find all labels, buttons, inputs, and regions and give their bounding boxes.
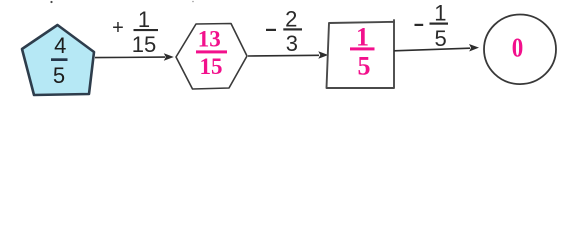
arrow 3 head <box>469 44 479 52</box>
fraction 1/5 bar <box>350 47 375 50</box>
svg-text:0: 0 <box>512 32 524 62</box>
svg-text:2: 2 <box>285 7 297 32</box>
speck <box>50 1 52 3</box>
hexagon box <box>176 24 247 90</box>
svg-text:5: 5 <box>358 52 371 81</box>
label +1/15 bar <box>134 29 159 31</box>
label -1/5 minus sign <box>415 24 424 26</box>
svg-text:5: 5 <box>434 26 446 51</box>
svg-text:3: 3 <box>286 31 298 56</box>
svg-text:1: 1 <box>434 0 446 25</box>
svg-text:1: 1 <box>356 22 369 51</box>
arrow 3 wire <box>394 48 470 51</box>
svg-text:15: 15 <box>132 32 156 57</box>
circle output box <box>484 15 556 85</box>
arrow 1 wire <box>95 56 165 59</box>
fraction 13/15 bar <box>196 50 227 53</box>
square top-right overshoot tick <box>393 19 395 23</box>
svg-text:5: 5 <box>53 63 65 88</box>
label -1/5 bar <box>430 23 449 25</box>
svg-text:13: 13 <box>198 27 221 52</box>
arrow 1 head <box>164 53 174 61</box>
pentagon input box <box>22 25 94 95</box>
arrow 2 head <box>318 51 328 59</box>
label -2/3 bar <box>283 28 302 30</box>
square box <box>327 22 395 88</box>
svg-text:1: 1 <box>138 7 150 32</box>
svg-text:4: 4 <box>54 33 66 58</box>
arrow 2 wire <box>248 54 319 57</box>
svg-text:+: + <box>112 17 124 39</box>
svg-text:15: 15 <box>200 54 223 79</box>
speck 2 <box>192 1 194 3</box>
fraction 4/5 bar <box>51 58 68 61</box>
label -2/3 minus sign <box>266 29 276 31</box>
